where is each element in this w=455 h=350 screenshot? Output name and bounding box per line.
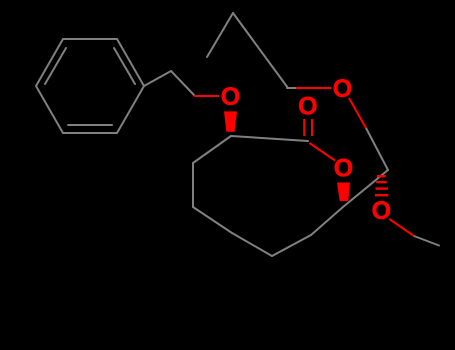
benzene ring C6H5 [36, 39, 144, 133]
wire C6-C7 [232, 233, 272, 256]
wire O4-C9 gray half [366, 128, 388, 170]
wire C5-C6 [193, 207, 232, 233]
wedge C9-O5 hashed [377, 175, 386, 177]
wire chain CH2-CH2 [233, 13, 288, 88]
wire O4-CH2 chain gray tail [287, 87, 296, 89]
wedge O1-C3 bold [224, 111, 237, 131]
wire C2=O2 double bond [303, 119, 305, 136]
svg-text:O: O [334, 155, 353, 183]
benzene inner double bond lines [68, 124, 112, 126]
wire chain CH3 end [207, 13, 233, 57]
wire C7-C8 [272, 235, 311, 256]
wedge O3-C1 bold [337, 183, 350, 202]
wire C8-C1 [311, 207, 343, 235]
wire phenyl to CH2 [144, 71, 171, 86]
svg-text:O: O [372, 197, 391, 225]
wire C1-C9 acetal [343, 170, 388, 207]
wire O5-CH3 gray tail [414, 236, 439, 246]
svg-text:O: O [333, 75, 352, 103]
wire C3-C4 [193, 136, 231, 163]
wire C4-C5 [192, 163, 194, 207]
wire C3-C2 [231, 136, 308, 141]
wire O5-CH3 red half [389, 219, 414, 236]
svg-text:O: O [221, 83, 240, 111]
wire CH2 to O1 (gray half) [171, 71, 194, 95]
wire O4-CH2 chain red half [296, 87, 331, 89]
svg-text:O: O [298, 93, 317, 121]
wire C2-O3 ester bond [310, 143, 336, 161]
wire CH2-O1 red half [194, 95, 219, 97]
wire O4-C9 red half [349, 98, 366, 128]
